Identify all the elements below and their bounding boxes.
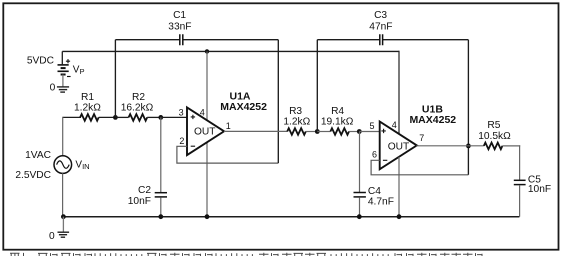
resistor R2 16.2k	[115, 116, 128, 118]
wire U1B V+ drop	[398, 51, 400, 134]
capacitor C5 10nF	[519, 145, 521, 179]
svg-text:R5: R5	[487, 120, 500, 131]
source VIN 1VAC 2.5VDC	[54, 156, 72, 174]
svg-text:VP: VP	[73, 64, 85, 76]
wire ground rail	[63, 216, 520, 218]
svg-text:OUT: OUT	[388, 142, 410, 153]
capacitor C4 4.7nF	[359, 132, 361, 193]
resistor R1 1.2k	[80, 114, 99, 121]
node U1B output junction	[466, 144, 471, 149]
svg-text:OUT: OUT	[194, 126, 216, 137]
svg-text:33nF: 33nF	[168, 21, 191, 32]
node R3/R4/C3 junction	[315, 129, 320, 134]
svg-text:47nF: 47nF	[369, 21, 392, 32]
wire VIN to R1	[63, 116, 81, 118]
svg-text:5: 5	[369, 121, 374, 131]
capacitor C3 47nF branch	[317, 39, 380, 41]
svg-text:C3: C3	[374, 10, 387, 21]
ground main (0)	[62, 217, 64, 233]
wire U1A V- stub to ground rail	[206, 142, 208, 217]
capacitor C2 10nF	[160, 117, 162, 192]
svg-text:2.5VDC: 2.5VDC	[15, 170, 51, 181]
resistor R5 10.5k	[484, 143, 503, 150]
node R4/C4/+in junction	[357, 129, 362, 134]
wire VIN vertical bottom	[62, 173, 64, 216]
wire top rail V+	[62, 50, 399, 52]
svg-text:16.2kΩ: 16.2kΩ	[121, 102, 154, 113]
wire U1A feedback loop (pin2)	[177, 146, 278, 163]
svg-text:6: 6	[372, 150, 377, 160]
battery V1 5VDC	[58, 51, 71, 87]
svg-text:VIN: VIN	[75, 160, 89, 172]
svg-text:1VAC: 1VAC	[25, 150, 51, 161]
capacitor C1 33nF branch	[115, 39, 179, 41]
wire node4 to U1B +in	[359, 131, 380, 133]
wire C1/feedback right vertical	[277, 40, 279, 163]
wire C3/feedback right vertical	[467, 40, 469, 175]
wire VIN vertical top	[62, 117, 64, 156]
svg-text:4.7nF: 4.7nF	[368, 196, 394, 207]
svg-text:10nF: 10nF	[528, 184, 551, 195]
resistor R3 1.2k	[287, 128, 306, 135]
svg-text:C2: C2	[138, 185, 151, 196]
node ground rail junctions	[61, 214, 66, 219]
svg-text:MAX4252: MAX4252	[409, 114, 456, 126]
wire R2 to node2	[147, 116, 161, 118]
wire U1B output row	[417, 145, 484, 147]
op-amp U1B MAX4252	[380, 122, 417, 170]
wire C1 left vertical	[114, 40, 116, 118]
svg-text:0: 0	[49, 231, 55, 242]
wire U1B feedback loop (pin6)	[371, 160, 468, 175]
wire node2 to U1A +in	[161, 116, 188, 118]
wire C3 left vertical	[316, 40, 318, 132]
svg-text:1: 1	[226, 121, 231, 131]
wire U1A output row	[224, 130, 287, 132]
wire U1A V+ stub	[206, 51, 208, 120]
wire R1 to node1	[99, 116, 116, 118]
svg-text:4: 4	[392, 120, 397, 130]
svg-text:19.1kΩ: 19.1kΩ	[321, 116, 354, 127]
svg-text:1.2kΩ: 1.2kΩ	[283, 116, 310, 127]
wire R5 to C5 corner	[502, 145, 520, 147]
svg-text:R2: R2	[132, 92, 145, 103]
svg-text:7: 7	[419, 133, 424, 143]
op-amp U1A MAX4252	[187, 107, 224, 155]
svg-text:2: 2	[179, 136, 184, 146]
node top rail / U1A V+ junction	[205, 49, 209, 53]
svg-text:1.2kΩ: 1.2kΩ	[74, 102, 101, 113]
node R1/R2/C1 junction	[113, 115, 118, 120]
caption	[10, 253, 482, 256]
svg-text:R1: R1	[81, 92, 94, 103]
svg-text:3: 3	[179, 107, 184, 117]
ground of 5VDC	[57, 87, 69, 92]
wire U1B V- stub to ground rail	[398, 157, 400, 217]
resistor R4 19.1k	[317, 131, 330, 133]
svg-text:C4: C4	[368, 186, 381, 197]
svg-text:0: 0	[50, 83, 56, 94]
svg-text:C1: C1	[173, 10, 186, 21]
svg-text:MAX4252: MAX4252	[220, 101, 267, 113]
wire R3 to node3	[306, 131, 318, 133]
svg-text:5VDC: 5VDC	[27, 55, 54, 66]
svg-text:4: 4	[200, 107, 205, 117]
wire R4 to node4	[349, 131, 359, 133]
svg-text:10.5kΩ: 10.5kΩ	[478, 131, 511, 142]
node R2/C2/+in junction	[158, 115, 163, 120]
svg-text:10nF: 10nF	[128, 196, 151, 207]
